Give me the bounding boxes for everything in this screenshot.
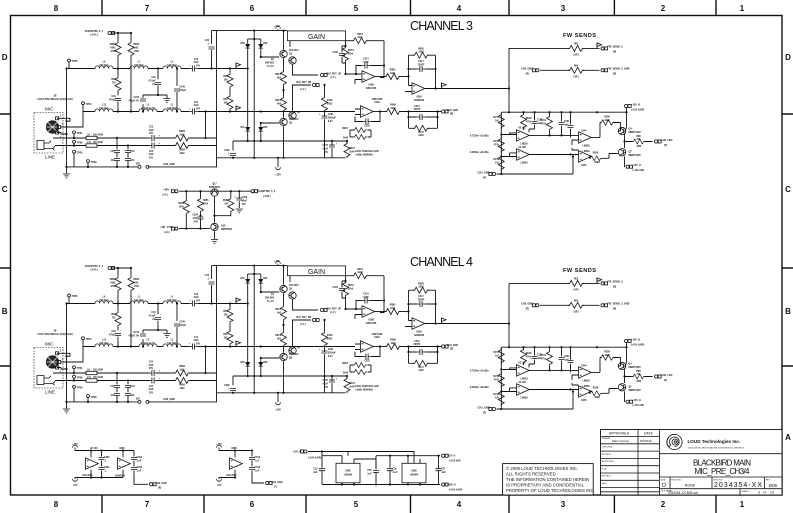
svg-text:C217: C217 <box>418 61 424 63</box>
svg-text:D52: D52 <box>263 43 268 45</box>
svg-text:R6B2: R6B2 <box>133 44 140 46</box>
svg-text:-15V_H: -15V_H <box>448 456 456 458</box>
svg-text:C359: C359 <box>242 197 248 199</box>
svg-text:APPROVALS: APPROVALS <box>609 432 630 436</box>
svg-text:160 Ohm: 160 Ohm <box>167 65 177 67</box>
svg-text:APPROVED: APPROVED <box>602 460 615 463</box>
svg-text:.25W: .25W <box>636 146 642 148</box>
svg-text:RF PROJ: RF PROJ <box>602 454 611 456</box>
ground (input filter) <box>166 95 168 98</box>
resistor R6B2 6k19 <box>130 33 132 112</box>
column number labels bottom <box>54 500 745 509</box>
svg-text:U245: U245 <box>581 164 587 167</box>
svg-text:NJM2068: NJM2068 <box>414 100 425 102</box>
wire core left bus <box>216 31 218 158</box>
column number labels top <box>54 4 745 13</box>
svg-text:Matt Conrad: Matt Conrad <box>612 439 629 443</box>
svg-text:2N4 B05: 2N4 B05 <box>265 61 275 64</box>
svg-text:.1uF: .1uF <box>255 460 260 462</box>
svg-text:U26A: U26A <box>416 96 422 99</box>
svg-text:PHANTOM_3_4: PHANTOM_3_4 <box>257 190 276 193</box>
svg-text:R085: R085 <box>203 200 209 202</box>
svg-text:6k81: 6k81 <box>133 47 139 49</box>
svg-text:470pF: 470pF <box>109 98 116 101</box>
svg-text:C362: C362 <box>137 457 143 459</box>
svg-text:8: 8 <box>54 500 59 509</box>
wire opamp1 out <box>375 76 387 78</box>
resistor R6D2 240R <box>632 139 645 144</box>
test point TP35 <box>68 59 71 62</box>
svg-text:1k00: 1k00 <box>390 73 396 75</box>
svg-text:MMBT4403: MMBT4403 <box>629 131 642 134</box>
svg-text:R6B3: R6B3 <box>179 131 186 133</box>
transistor Q2 <box>289 57 296 64</box>
svg-text:160 Ohm: 160 Ohm <box>134 65 144 67</box>
svg-text:470pF 2%: 470pF 2% <box>128 99 139 102</box>
svg-text:150 OHM: 150 OHM <box>93 142 103 144</box>
op-amp U26A NJM2068 <box>412 83 425 94</box>
wire to CH4_GND pin <box>252 478 264 483</box>
resistor R6B1 6k81 <box>117 33 119 69</box>
resistor R63 51R1 <box>568 45 584 51</box>
svg-text:C22: C22 <box>149 127 154 129</box>
svg-text:R158: R158 <box>493 141 499 143</box>
inductor L4 160 Ohm <box>163 66 181 69</box>
svg-text:47uF: 47uF <box>148 153 154 156</box>
wire core input cold <box>217 111 356 113</box>
wire fw send <box>509 47 600 49</box>
resistor R087 604 <box>230 191 232 197</box>
svg-text:C361: C361 <box>104 467 110 469</box>
junction ground rail <box>65 166 67 168</box>
svg-text:C518: C518 <box>255 467 261 469</box>
svg-text:.1uF: .1uF <box>137 460 142 462</box>
connector pin CH3_GND (fw) <box>532 69 539 72</box>
capacitor C238 .1 <box>232 141 234 158</box>
wire phantom feed <box>112 32 131 34</box>
svg-text:(R): (R) <box>613 74 616 76</box>
svg-text:R048: R048 <box>526 117 532 120</box>
net flag A (hot) <box>236 63 241 69</box>
resistor R038 499R <box>590 155 592 157</box>
resistor R94 750 <box>117 69 119 77</box>
svg-text:FW_SEND_3: FW_SEND_3 <box>608 46 624 49</box>
transistor Q18 <box>211 223 218 230</box>
svg-text:FW_SEND_3_GND: FW_SEND_3_GND <box>608 68 630 71</box>
inductor L6 245 Ohm <box>95 66 113 69</box>
svg-text:R61: R61 <box>223 99 228 101</box>
resistor R6C3 32k6 <box>345 41 347 46</box>
wire cold rail drop to tip path <box>205 112 207 139</box>
capacitor C360 .1 <box>101 451 103 478</box>
capacitor C217 230PF <box>409 68 436 70</box>
svg-text:LM2904: LM2904 <box>344 474 353 477</box>
svg-text:FW SENDS: FW SENDS <box>563 33 596 39</box>
svg-text:100k: 100k <box>179 206 185 208</box>
wire C43 to C244/gnd <box>143 95 167 112</box>
svg-text:C246: C246 <box>179 86 185 89</box>
svg-text:150 OHM: 150 OHM <box>93 134 103 136</box>
svg-text:A: A <box>785 433 791 442</box>
wire mid-low rail <box>233 140 347 142</box>
svg-text:D53: D53 <box>263 127 268 129</box>
svg-text:C261: C261 <box>328 114 334 116</box>
svg-text:470k: 470k <box>526 120 532 123</box>
wire Q18 base feed <box>179 228 210 230</box>
svg-text:C247: C247 <box>323 144 329 147</box>
test point TP31 <box>73 131 76 134</box>
svg-text:(R): (R) <box>450 114 453 116</box>
resistor R6C1 6k0 <box>281 70 287 86</box>
svg-text:ALL RIGHTS RESERVED: ALL RIGHTS RESERVED <box>506 471 556 476</box>
svg-text:+15V: +15V <box>274 25 280 28</box>
resistor R6C7 <box>346 141 348 144</box>
svg-text:+15V: +15V <box>275 174 281 177</box>
op-amp U16A NJM2068 <box>355 109 361 115</box>
net flag A (fw send) <box>597 43 602 49</box>
svg-text:R6B1: R6B1 <box>418 48 425 50</box>
resistor R6C2 6k0 <box>281 96 287 112</box>
junction phantom feed <box>117 32 119 34</box>
svg-text:C41: C41 <box>194 101 199 104</box>
svg-text:U244: U244 <box>581 130 587 133</box>
wire +15V_H to Q4 <box>626 108 628 127</box>
svg-text:2034354-XX: 2034354-XX <box>714 482 762 489</box>
wire R32N to Q4 base <box>618 123 621 132</box>
svg-text:D: D <box>785 53 791 62</box>
svg-text:.25W: .25W <box>110 51 116 53</box>
svg-text:MMBTA06: MMBTA06 <box>209 186 221 189</box>
wire Q4 emitter / Q7 collector <box>625 127 627 148</box>
svg-text:3: 3 <box>561 500 566 509</box>
svg-text:47uF: 47uF <box>193 104 199 107</box>
svg-text:CH3_POT_UP: CH3_POT_UP <box>326 73 342 75</box>
svg-text:C231: C231 <box>363 59 369 61</box>
svg-text:U16B: U16B <box>368 85 374 87</box>
regulator IC U7 LM2904 <box>402 463 426 483</box>
wire Q4 to pot low <box>293 85 312 111</box>
svg-text:( AAA ): ( AAA ) <box>90 34 98 37</box>
regulator IC U6 LM2904 <box>336 463 360 483</box>
capacitor C32 (shunt ring) <box>127 146 129 167</box>
svg-text:C219: C219 <box>414 106 420 108</box>
svg-text:NJM 2068: NJM 2068 <box>372 99 383 101</box>
svg-text:2k49: 2k49 <box>357 36 363 39</box>
svg-text:49k9: 49k9 <box>604 119 610 122</box>
wire ground rail <box>67 158 217 167</box>
svg-text:1k62: 1k62 <box>179 134 185 136</box>
wire top rail <box>219 449 252 450</box>
ground (input bus) <box>66 167 68 174</box>
approvals table <box>601 430 660 496</box>
ground (Q18) <box>211 240 218 244</box>
wire Q5 emitter chain <box>283 58 285 70</box>
svg-text:CH3_LED: CH3_LED <box>661 139 673 142</box>
op-amp U26D (spare) <box>234 451 236 458</box>
svg-text:1: 1 <box>740 500 745 509</box>
svg-text:16220 WOOD-RED ROAD NE WOODINV: 16220 WOOD-RED ROAD NE WOODINVILLE, WA 9… <box>688 446 745 449</box>
wire comparator left bus <box>500 112 502 174</box>
wire U3C out to U24 in <box>529 134 550 136</box>
svg-text:+48V: +48V <box>163 188 169 191</box>
svg-text:CH3_GND: CH3_GND <box>478 171 490 174</box>
svg-text:160 Ohm: 160 Ohm <box>167 108 177 110</box>
svg-text:R6B4: R6B4 <box>179 149 186 152</box>
svg-text:R147: R147 <box>418 131 424 134</box>
MIC XLR connector body <box>46 121 58 133</box>
svg-text:3300uF: 3300uF <box>328 117 337 119</box>
svg-text:-15V: -15V <box>73 485 78 487</box>
svg-text:(+15V-A/R): (+15V-A/R) <box>633 169 645 172</box>
wire comparator inputs <box>501 133 516 157</box>
svg-text:C244: C244 <box>134 96 140 99</box>
svg-text:6: 6 <box>250 4 255 13</box>
op-amp U16B NJM2068 <box>362 71 375 82</box>
size/dwg row <box>659 477 782 489</box>
svg-text:IS PROPRIETARY AND CONFIDENTIA: IS PROPRIETARY AND CONFIDENTIAL <box>506 482 585 487</box>
svg-text:C364: C364 <box>192 214 198 217</box>
divider under logo <box>659 453 782 455</box>
svg-text:CHANNEL 3: CHANNEL 3 <box>410 19 473 33</box>
svg-text:CH3_POT_DN: CH3_POT_DN <box>296 82 312 84</box>
svg-text:5: 5 <box>354 500 359 509</box>
svg-text:50V: 50V <box>196 108 201 110</box>
transistor Q7 MMBT4403 <box>618 149 625 156</box>
svg-text:8: 8 <box>54 4 59 13</box>
wire Q6 emitter to bottom rail <box>283 126 285 158</box>
wire fw bus vertical <box>508 48 510 112</box>
svg-text:C46: C46 <box>111 95 116 98</box>
power +15V (bottom) <box>277 158 279 166</box>
svg-text:CH4_GND: CH4_GND <box>272 481 283 484</box>
svg-text:MFG: MFG <box>602 483 607 485</box>
svg-text:1k00: 1k00 <box>390 108 396 110</box>
row letter labels left <box>2 53 8 442</box>
svg-text:TP34: TP34 <box>86 103 93 106</box>
svg-text:PROPERTY OF LOUD TECHNOLOGIES: PROPERTY OF LOUD TECHNOLOGIES INC. <box>506 488 595 493</box>
svg-text:FSCM NO.: FSCM NO. <box>671 479 682 481</box>
svg-text:32k6: 32k6 <box>348 53 354 55</box>
svg-text:CH3_GND: CH3_GND <box>447 110 458 112</box>
svg-text:GAIN: GAIN <box>308 34 325 41</box>
svg-text:(+15V-AA/R): (+15V-AA/R) <box>308 456 321 459</box>
svg-text:7: 7 <box>145 4 150 13</box>
svg-text:B: B <box>785 307 791 316</box>
wire XLR pin3 to cold rail <box>61 112 83 128</box>
wire core bottom rail <box>217 157 346 159</box>
resistor R086 100k <box>185 191 187 199</box>
connector pin FW_SEND_3_GND <box>601 69 608 72</box>
resistor R148 3R32 <box>324 85 326 96</box>
svg-text:25V: 25V <box>149 157 154 159</box>
wire line ring path <box>55 145 217 147</box>
svg-text:CH3_GND: CH3_GND <box>156 483 167 485</box>
svg-text:B: B <box>2 307 8 316</box>
connector pin -15V_H <box>626 165 633 168</box>
connector pin GND_H <box>442 483 449 486</box>
svg-text:NJM 2068: NJM 2068 <box>366 88 377 90</box>
svg-text:.1uF: .1uF <box>367 473 372 475</box>
svg-text:R086: R086 <box>178 203 184 205</box>
LOUD logo <box>667 434 682 449</box>
resistor R60 20k <box>229 69 231 73</box>
svg-text:TP30: TP30 <box>77 151 84 154</box>
svg-text:C360: C360 <box>104 457 110 459</box>
connector pin CH3_GND (comparator) <box>489 172 496 175</box>
svg-text:LM339: LM339 <box>582 146 590 148</box>
resistor R158 470k <box>498 137 504 153</box>
connector pin +15V_H <box>625 104 632 107</box>
svg-text:( AAR ): ( AAR ) <box>263 195 271 198</box>
svg-text:MMBT4403: MMBT4403 <box>629 154 642 157</box>
capacitor C244 470pF 2% <box>140 99 146 101</box>
wire top rail <box>75 449 134 450</box>
net flag A (cold) <box>236 106 241 112</box>
junction line paths <box>116 137 118 139</box>
svg-text:R64: R64 <box>574 65 579 68</box>
svg-text:(?): (?) <box>274 486 277 488</box>
resistor R6C5 2k49 <box>350 129 371 131</box>
svg-text:R6C1: R6C1 <box>275 74 282 76</box>
inductor L2 160 Ohm <box>163 109 181 112</box>
capacitor C43 47.5pF 2% <box>157 69 159 96</box>
inductor L13 160 Ohm <box>95 109 113 112</box>
power -15V <box>75 478 102 479</box>
svg-text:6k81: 6k81 <box>110 47 116 49</box>
test point TP36 <box>73 140 76 143</box>
svg-text:.1uF: .1uF <box>441 472 446 474</box>
svg-text:CH3_GND: CH3_GND <box>521 68 533 71</box>
svg-text:(P): (P) <box>483 177 486 179</box>
svg-text:TP35: TP35 <box>72 60 79 63</box>
resistor R6C6 2k49 <box>350 130 371 137</box>
LINE jack symbol <box>37 141 55 151</box>
svg-text:U26D: U26D <box>231 448 237 450</box>
transistor Q5 <box>280 50 287 57</box>
resistor R085 27k4 <box>200 191 202 197</box>
svg-text:CON 3 PIN FEMALE XLR(Shield): CON 3 PIN FEMALE XLR(Shield) <box>37 98 72 101</box>
column tick marks bottom <box>102 495 716 513</box>
resistor R159 22k <box>498 155 504 171</box>
column tick marks top <box>102 0 716 16</box>
svg-text:GND_H: GND_H <box>448 484 456 486</box>
svg-text:THE INFORMATION CONTAINED HERE: THE INFORMATION CONTAINED HEREIN <box>506 477 589 482</box>
svg-text:R6D: R6D <box>636 136 641 138</box>
svg-text:50V: 50V <box>194 221 199 223</box>
ground (C359) <box>236 209 243 213</box>
svg-text:6: 6 <box>250 500 255 509</box>
svg-text:25V: 25V <box>149 133 154 135</box>
feedback resistor R6C4 2k49 <box>346 40 381 42</box>
wire core input hot <box>217 68 248 70</box>
connector pin CH4_GND (bypass) <box>266 481 273 484</box>
wire XLR pin2 <box>57 118 70 121</box>
capacitor C56 .1uF <box>387 469 393 471</box>
svg-text:TP31: TP31 <box>77 132 84 135</box>
svg-text:( LC ): ( LC ) <box>330 77 336 79</box>
svg-text:7: 7 <box>145 500 150 509</box>
wire to CH3_GND pin <box>102 478 149 485</box>
wire opamp1 inputs <box>346 74 363 84</box>
svg-text:R148: R148 <box>327 99 333 102</box>
capacitor C24 47uF 25V <box>149 143 158 149</box>
capacitor C22 47uF 25V <box>149 135 158 141</box>
wire center bus <box>253 31 255 158</box>
wire lower fb busses <box>409 112 438 129</box>
inductor L1 160 Ohm <box>130 66 148 69</box>
svg-text:MIC_PRE_CH3/4: MIC_PRE_CH3/4 <box>695 467 751 476</box>
svg-text:50V: 50V <box>242 204 247 206</box>
wire base top pair <box>261 56 279 58</box>
wire opamp1 feedback bus <box>380 41 384 78</box>
svg-text:C32: C32 <box>130 151 135 153</box>
capacitor C362 C363 <box>133 451 135 482</box>
wire comparator mid bus <box>529 129 535 132</box>
svg-text:5: 5 <box>354 4 359 13</box>
svg-text:+15V_H: +15V_H <box>631 103 640 106</box>
svg-text:2k49: 2k49 <box>418 51 424 54</box>
svg-text:4: 4 <box>457 500 462 509</box>
svg-text:.1uF: .1uF <box>137 470 142 472</box>
svg-text:245 Ohm: 245 Ohm <box>99 64 109 67</box>
comparator U3D LM339 <box>517 149 530 160</box>
svg-text:2: 2 <box>661 4 666 13</box>
wire supply ground rail <box>322 484 440 486</box>
junction hot rail <box>117 67 119 69</box>
svg-text:R6B1: R6B1 <box>110 44 117 46</box>
svg-text:R157: R157 <box>493 117 499 119</box>
capacitor C55 .1uF <box>373 470 379 472</box>
svg-text:R32N: R32N <box>604 117 610 119</box>
svg-text:(+15V-A/R): (+15V-A/R) <box>449 460 461 463</box>
svg-text:U3 14D: U3 14D <box>518 146 526 149</box>
svg-text:*to do*: *to do* <box>267 65 275 68</box>
svg-text:Q18: Q18 <box>221 226 226 228</box>
svg-text:(R): (R) <box>158 488 161 490</box>
svg-text:C230: C230 <box>333 52 339 54</box>
svg-text:SHEET: SHEET <box>742 491 750 493</box>
net flag A (output) <box>442 83 447 89</box>
wire mic cold rail <box>83 111 217 113</box>
wire opamp3 out <box>373 111 387 113</box>
capacitor C247 68uF 50V <box>331 141 333 158</box>
comparator U25 LM339 <box>579 151 592 162</box>
svg-text:U26C: U26C <box>119 448 125 450</box>
svg-text:( AA ): ( AA ) <box>162 193 168 196</box>
capacitor C364 47uF 50V <box>200 213 202 229</box>
row letter labels right <box>785 53 791 442</box>
wire channel output to FW bus <box>425 88 510 90</box>
wire Q18 emitter to ground <box>214 231 216 239</box>
svg-text:2SA1015: 2SA1015 <box>289 49 299 52</box>
wire line tip path <box>53 137 217 139</box>
wire base bottom pair <box>261 122 279 124</box>
svg-text:OF: OF <box>763 491 767 495</box>
capacitor C31 (shunt tip) <box>116 138 118 167</box>
svg-text:160 Ohm: 160 Ohm <box>99 108 109 110</box>
svg-text:REV: REV <box>766 479 771 481</box>
resistor R61 20k <box>229 89 231 112</box>
wire XLR pin1 <box>57 133 67 135</box>
svg-text:470pF: 470pF <box>179 89 186 92</box>
wire core top rail <box>217 30 288 32</box>
svg-text:DRAWN: DRAWN <box>602 437 611 440</box>
svg-text:C57: C57 <box>441 469 446 471</box>
wire supply top rail <box>308 452 414 464</box>
svg-text:(+15V-AA/R): (+15V-AA/R) <box>449 488 462 491</box>
diode D51 <box>247 69 249 126</box>
svg-text:R6C2: R6C2 <box>275 100 282 102</box>
